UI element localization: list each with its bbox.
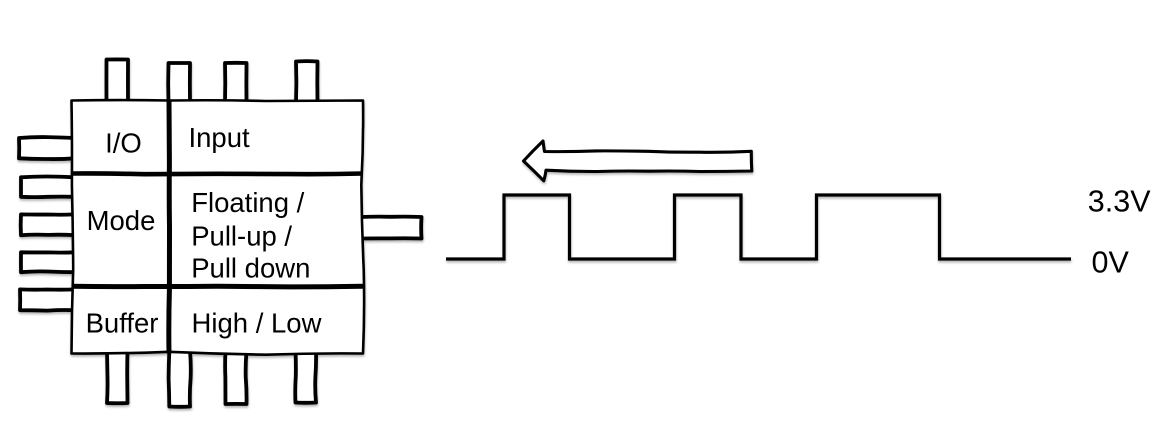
chip top pin T3 xyxy=(225,63,247,103)
chip body outline xyxy=(72,100,365,355)
chip left pin L3 xyxy=(21,214,75,235)
svg-text:3.3V: 3.3V xyxy=(1088,184,1151,218)
chip left pin L1 xyxy=(19,137,75,159)
chip top pin T4 xyxy=(296,61,318,103)
chip bottom pin B2 xyxy=(169,351,191,407)
svg-text:Pull down: Pull down xyxy=(191,253,310,284)
svg-text:0V: 0V xyxy=(1092,246,1130,280)
chip right pin R1 xyxy=(360,217,422,239)
signal waveform square wave xyxy=(446,195,1071,259)
svg-text:Input: Input xyxy=(189,122,251,153)
svg-text:Mode: Mode xyxy=(87,205,156,236)
chip bottom pin B1 xyxy=(107,351,128,404)
svg-text:Floating /: Floating / xyxy=(191,187,304,218)
left-pointing block arrow xyxy=(524,141,752,181)
svg-text:High / Low: High / Low xyxy=(192,308,322,339)
chip top pin T2 xyxy=(168,63,190,103)
svg-text:Buffer: Buffer xyxy=(86,308,159,339)
chip left pin L5 xyxy=(20,289,75,310)
chip top pin T1 xyxy=(106,59,128,103)
table vertical divider xyxy=(166,101,172,354)
svg-text:I/O: I/O xyxy=(105,127,142,158)
svg-text:Pull-up /: Pull-up / xyxy=(191,221,292,252)
chip left pin L4 xyxy=(21,252,75,272)
table horizontal divider 2 xyxy=(72,284,364,290)
chip left pin L2 xyxy=(21,176,75,197)
chip bottom pin B3 xyxy=(225,351,246,404)
table horizontal divider 1 xyxy=(72,171,364,176)
chip bottom pin B4 xyxy=(295,351,316,403)
